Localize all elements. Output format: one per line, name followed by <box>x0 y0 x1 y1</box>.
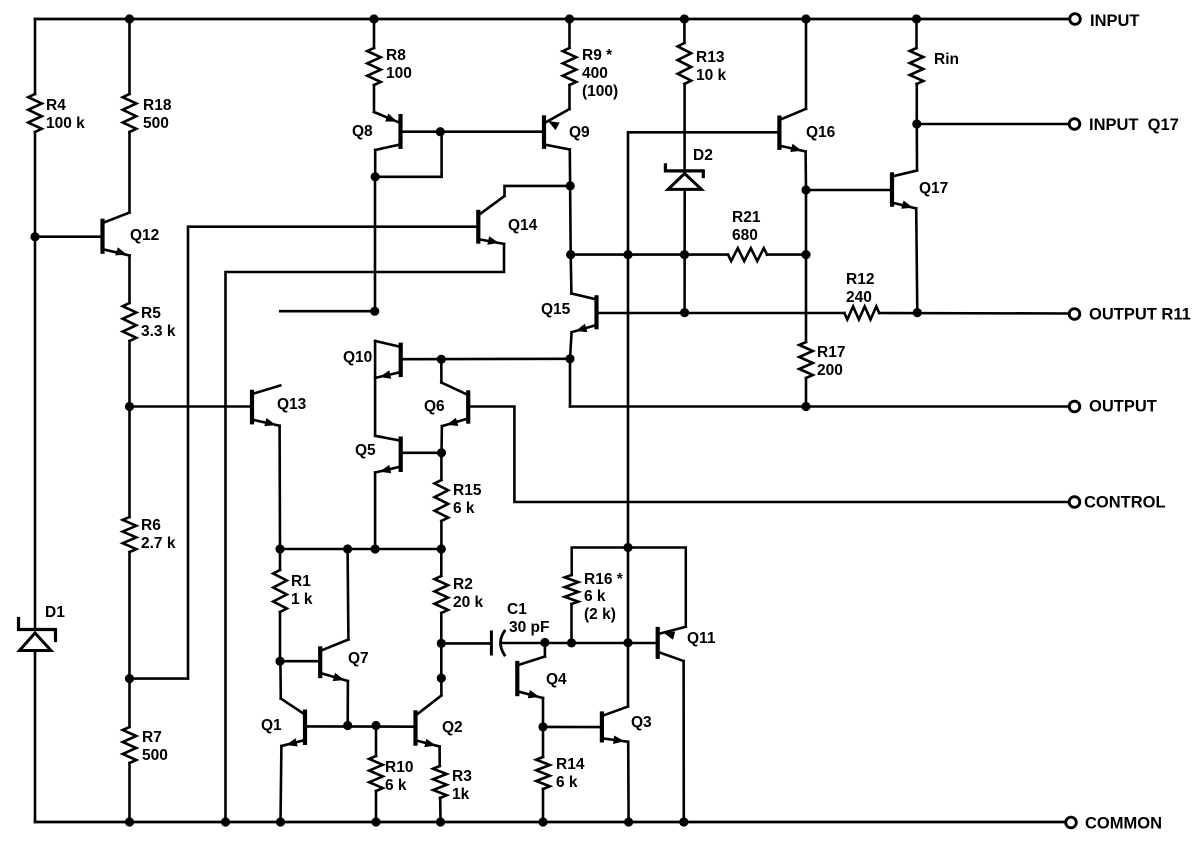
svg-text:100 k: 100 k <box>46 115 85 132</box>
junction: top rail/R8 <box>369 14 378 23</box>
junction: top rail/Q16 collector <box>801 14 810 23</box>
svg-text:240: 240 <box>846 289 872 306</box>
svg-text:400: 400 <box>582 65 608 82</box>
svg-text:6 k: 6 k <box>584 588 606 605</box>
svg-text:R17: R17 <box>817 344 845 361</box>
junction: Q15 emitter node <box>565 354 574 363</box>
resistor R10 value label <box>385 759 413 794</box>
svg-text:Q14: Q14 <box>508 217 538 234</box>
transistor Q1 <box>261 699 305 747</box>
resistor R21 <box>728 248 767 261</box>
junction: Q14/Q9 collector node <box>566 181 575 190</box>
wire: bottom COMMON rail <box>35 821 1065 824</box>
svg-text:R5: R5 <box>141 305 161 322</box>
transistor Q9 <box>544 109 590 150</box>
terminal OUTPUT <box>1069 398 1157 416</box>
resistor R1 value label <box>291 573 313 608</box>
capacitor C1 <box>491 631 504 655</box>
svg-text:Q10: Q10 <box>343 349 372 366</box>
wire: Q16 base column <box>628 132 778 642</box>
wire: Q15 emitter to OUTPUT corner <box>570 332 572 406</box>
svg-text:Q3: Q3 <box>631 714 652 731</box>
svg-text:R3: R3 <box>452 768 472 785</box>
junction: Q17 collector/INPUT Q17 <box>912 119 921 128</box>
resistor R12 value label <box>846 271 874 306</box>
wire: R21 right lead <box>767 253 806 256</box>
resistor R6 value label <box>141 517 176 552</box>
junction: COMMON/Q3 emitter <box>624 817 633 826</box>
resistor R18 <box>123 94 137 132</box>
junction: C1 line/Q4 collector <box>540 638 549 647</box>
junction: Q8 collector node <box>371 172 380 181</box>
wire: Q8 node down to Q13/Q10 node <box>374 177 377 311</box>
resistor R18 value label <box>143 97 172 132</box>
junction: COMMON/R3 <box>436 817 445 826</box>
svg-text:R15: R15 <box>453 482 482 499</box>
wire: Q2 emitter to R3 <box>438 747 441 767</box>
resistor R17 <box>799 342 813 378</box>
junction: Q5 base/Q6 emitter <box>437 448 446 457</box>
svg-text:R10: R10 <box>385 759 413 776</box>
wire: Q15 collector run <box>569 255 572 294</box>
junction: left rail/Q5 emitter <box>371 544 380 553</box>
wire: Q10 emitter to Q5 collector <box>374 341 377 436</box>
wire: Q13 collector link <box>280 310 375 313</box>
svg-text:CONTROL: CONTROL <box>1084 494 1166 512</box>
junction: Q7 base/R1 <box>275 657 284 666</box>
svg-text:6 k: 6 k <box>453 500 475 517</box>
wire: Q5 emitter to lower rail <box>374 473 377 550</box>
wire: R18 top feed <box>128 19 131 94</box>
svg-text:R2: R2 <box>453 576 473 593</box>
junction: Q4 emitter/Q3 base/R14 <box>538 722 547 731</box>
svg-text:Q15: Q15 <box>541 301 571 318</box>
wire: Q9-collector node row <box>571 253 728 256</box>
transistor Q17 <box>892 171 948 209</box>
resistor R16 <box>565 575 579 604</box>
terminal OUTPUT R11 <box>1069 306 1191 324</box>
wire: Q16 emitter node to R21/R17 column <box>805 190 808 342</box>
wire: R5 bottom to Q13-base node <box>128 341 131 407</box>
transistor Q15 <box>541 294 597 333</box>
wire: Q8/Q9 base link <box>402 130 542 133</box>
junction: Q4 base/R2 column <box>437 674 446 683</box>
svg-text:Q13: Q13 <box>277 396 307 413</box>
wire: R8 bottom lead <box>373 85 376 112</box>
svg-text:200: 200 <box>817 362 843 379</box>
wire: OUTPUT R11 line right part <box>879 312 1068 315</box>
wire: Q9 collector run <box>568 150 572 255</box>
svg-text:1k: 1k <box>452 786 470 803</box>
wire: R17 bottom to OUTPUT line <box>805 378 808 407</box>
junction: row254/R21-R17 column <box>801 250 810 259</box>
svg-text:Q2: Q2 <box>442 719 463 736</box>
junction: row254/x628 column <box>623 250 632 259</box>
junction: base line/R10 <box>371 721 380 730</box>
svg-text:R7: R7 <box>142 729 162 746</box>
resistor R3 value label <box>452 768 472 803</box>
wire: Q4 emitter run <box>542 698 545 727</box>
transistor Q2 <box>416 696 463 748</box>
svg-text:(2 k): (2 k) <box>584 606 616 623</box>
resistor Rin value label <box>934 51 959 68</box>
svg-text:Q9: Q9 <box>569 124 590 141</box>
wire: C1 line left lead <box>441 642 491 645</box>
diode D2 label <box>693 147 713 164</box>
wire: Rin top feed <box>915 19 918 48</box>
junction: top rail/R13 <box>680 14 689 23</box>
wire: Q17 collector run <box>915 124 918 171</box>
wire: x628 column to Q3 collector <box>627 643 630 707</box>
transistor Q16 <box>779 109 835 152</box>
terminal CONTROL <box>1069 494 1165 512</box>
wire: R6/R7 node to bias line A <box>130 677 189 680</box>
svg-text:C1: C1 <box>507 601 527 618</box>
junction: OUTPUT R11/D2 anode <box>680 308 689 317</box>
resistor R7 <box>123 727 137 763</box>
junction: OUTPUT R11/Q17 emitter <box>913 308 922 317</box>
svg-text:R16 *: R16 * <box>584 571 624 588</box>
resistor R2 <box>435 576 449 613</box>
wire: R9 bottom lead <box>568 85 571 109</box>
wire: top INPUT rail <box>35 18 1069 21</box>
svg-text:R8: R8 <box>386 47 406 64</box>
resistor R15 value label <box>453 482 482 517</box>
wire: Q14 collector link <box>505 186 571 196</box>
resistor R6 <box>123 517 137 552</box>
wire: Q5 base <box>403 451 442 454</box>
wire: Q14 emitter return line B <box>226 244 505 822</box>
junction: Q16 emitter/Q17 base <box>801 185 810 194</box>
junction: row254/Q9 collector <box>566 250 575 259</box>
wire: Q13 emitter run <box>278 426 281 549</box>
svg-text:R9 *: R9 * <box>582 47 613 64</box>
svg-text:Q12: Q12 <box>130 227 159 244</box>
wire: Q3 base link <box>543 726 600 729</box>
resistor R9 value label <box>582 47 618 100</box>
junction: top rail/R18 <box>125 14 134 23</box>
transistor Q13 <box>252 386 307 427</box>
svg-text:Q17: Q17 <box>919 180 948 197</box>
junction: C1 line/x628-Q3 <box>623 638 632 647</box>
wire: R10 bottom to COMMON <box>375 791 378 822</box>
svg-text:R18: R18 <box>143 97 172 114</box>
resistor R7 value label <box>142 729 168 764</box>
terminal INPUT Q17 <box>1069 116 1179 134</box>
wire: node to R6 top <box>128 407 131 518</box>
svg-text:INPUT: INPUT <box>1090 12 1140 30</box>
svg-text:Q4: Q4 <box>546 671 567 688</box>
wire: lower-right rail <box>572 548 686 627</box>
wire: Q6 base to CONTROL <box>470 407 1069 503</box>
svg-text:OUTPUT: OUTPUT <box>1089 398 1157 416</box>
wire: Q4 collector feed <box>544 643 547 657</box>
junction: top rail/R9 <box>565 14 574 23</box>
junction: Q8/Q9 base node <box>436 127 445 136</box>
resistor R15 <box>435 480 449 521</box>
wire: left branch vertical (R4/D1 column) <box>34 19 37 822</box>
svg-text:Q1: Q1 <box>261 717 282 734</box>
svg-text:INPUT Q17: INPUT Q17 <box>1089 116 1179 134</box>
resistor R5 <box>123 303 137 341</box>
svg-text:500: 500 <box>142 747 168 764</box>
resistor R3 <box>433 766 447 798</box>
resistor R4 value label <box>46 97 85 132</box>
svg-text:1 k: 1 k <box>291 591 313 608</box>
transistor Q5 <box>355 436 401 474</box>
wire: Q11 collector to COMMON <box>682 661 685 822</box>
junction: Q13 base node <box>125 402 134 411</box>
resistor R9 <box>563 48 577 85</box>
junction: COMMON/R14 <box>538 817 547 826</box>
junction: C1 line/R2 column <box>437 639 446 648</box>
junction: right rail/x628 column <box>623 543 632 552</box>
wire: D2 anode down through node <box>683 189 686 312</box>
wire: Q8 collector junction loop <box>375 132 441 177</box>
wire: R18 bottom to Q12 collector <box>128 132 131 213</box>
wire: R13 top feed <box>683 19 686 43</box>
wire: Q16 emitter run <box>804 152 807 191</box>
junction: COMMON/R7 <box>125 817 134 826</box>
svg-text:Q7: Q7 <box>348 650 369 667</box>
resistor R17 value label <box>817 344 845 379</box>
wire: Q6 emitter to Q5 base node <box>440 426 443 453</box>
wire: Q1 emitter to COMMON <box>279 746 282 822</box>
wire: R1 bottom to Q7 base node <box>279 612 282 661</box>
wire: R2 top feed <box>440 549 443 576</box>
transistor Q10 <box>343 341 401 379</box>
svg-text:20 k: 20 k <box>453 594 484 611</box>
svg-text:100: 100 <box>386 65 412 82</box>
junction: left rail/Q7 collector <box>343 544 352 553</box>
resistor R21 value label <box>732 209 761 244</box>
wire: R7 bottom to COMMON <box>128 763 131 822</box>
svg-text:500: 500 <box>143 115 169 132</box>
wire: Q16 collector feed <box>805 19 808 109</box>
resistor R8 <box>367 48 381 85</box>
wire: R3 bottom to COMMON <box>439 798 442 822</box>
svg-text:R12: R12 <box>846 271 874 288</box>
wire: Q7-base node to Q1 collector <box>279 661 282 698</box>
svg-text:680: 680 <box>732 227 758 244</box>
terminal INPUT <box>1070 12 1140 30</box>
svg-text:R14: R14 <box>556 756 585 773</box>
transistor Q4 <box>517 657 567 699</box>
wire: Q3 emitter to COMMON <box>627 742 630 822</box>
svg-text:R21: R21 <box>732 209 761 226</box>
svg-text:R4: R4 <box>46 97 66 114</box>
diode D1 (zener) <box>19 619 56 651</box>
junction: OUTPUT/R17 <box>801 402 810 411</box>
junction: COMMON/R10 <box>371 817 380 826</box>
junction: left rail/Q13 emitter <box>275 544 284 553</box>
svg-text:Q16: Q16 <box>806 124 836 141</box>
wire: Q17 base link <box>806 189 890 192</box>
junction: Q10 base node <box>437 355 446 364</box>
resistor R14 value label <box>556 756 585 791</box>
wire: R9 top feed <box>568 19 571 48</box>
svg-text:COMMON: COMMON <box>1085 815 1162 833</box>
junction: Q13 collector node <box>370 307 379 316</box>
resistor R4 <box>28 94 42 132</box>
wire: Q13 base <box>130 405 251 408</box>
wire: Q4 base node to Q2 collector <box>440 678 443 695</box>
svg-text:30 pF: 30 pF <box>509 619 549 636</box>
transistor Q14 <box>478 196 537 245</box>
wire: R2 bottom to C1 node <box>440 613 443 643</box>
junction: top rail/Rin <box>912 14 921 23</box>
svg-text:R13: R13 <box>696 49 725 66</box>
wire: R6 bottom to R7 node <box>128 552 131 727</box>
junction: Q12 base/left branch <box>30 232 39 241</box>
svg-text:6 k: 6 k <box>556 774 578 791</box>
svg-text:R6: R6 <box>141 517 161 534</box>
wire: INPUT Q17 line <box>917 123 1069 126</box>
diode D1 label <box>45 604 65 621</box>
svg-text:Q11: Q11 <box>687 630 716 647</box>
capacitor C1 value label <box>507 601 549 636</box>
wire: Rin bottom to Q17 collector node <box>915 84 918 124</box>
svg-text:2.7 k: 2.7 k <box>141 535 176 552</box>
svg-text:OUTPUT R11: OUTPUT R11 <box>1089 306 1191 324</box>
wire: bias line A vertical + Q14 base <box>188 227 477 679</box>
resistor R13 <box>678 43 692 84</box>
svg-text:Q6: Q6 <box>424 398 445 415</box>
resistor R16 value label <box>584 571 624 623</box>
wire: R14 bottom to COMMON <box>542 789 545 822</box>
transistor Q11 <box>658 627 716 661</box>
junction: COMMON/Q11 collector <box>679 817 688 826</box>
wire: OUTPUT line <box>570 405 1069 408</box>
resistor R8 value label <box>386 47 412 82</box>
wire: Q7 emitter run <box>346 681 349 726</box>
wire: Q12 emitter to R5 <box>128 256 131 304</box>
svg-text:Q5: Q5 <box>355 442 376 459</box>
junction: COMMON/Q1 emitter <box>276 817 285 826</box>
wire: OUTPUT R11 line left part <box>598 312 844 315</box>
svg-text:D2: D2 <box>693 147 713 164</box>
svg-text:3.3 k: 3.3 k <box>141 323 176 340</box>
wire: R13 bottom to D2 cathode <box>683 84 686 169</box>
junction: row254/D2 <box>680 250 689 259</box>
transistor Q6 <box>424 383 468 427</box>
wire: R15 bottom to lower rail <box>440 521 443 549</box>
wire: lower-left rail <box>280 548 443 551</box>
junction: COMMON/line B <box>221 817 230 826</box>
resistor R12 <box>844 307 879 320</box>
wire: Q12 base <box>35 235 101 238</box>
diode D2 (zener) <box>665 165 703 190</box>
wire: R16 bottom lead <box>570 604 573 643</box>
resistor R1 <box>273 570 287 612</box>
wire: C1 to Q4/R16/Q3 nodes and Q11 base <box>502 642 656 645</box>
transistor Q3 <box>602 707 652 745</box>
junction: base line/Q7 emitter <box>343 721 352 730</box>
transistor Q8 <box>352 112 401 150</box>
wire: Q10 base to Q6 collector <box>440 359 443 382</box>
svg-text:Rin: Rin <box>934 51 959 68</box>
wire: Q10/Q15 base link <box>403 357 571 360</box>
terminal COMMON <box>1066 815 1162 833</box>
resistor R14 <box>536 757 550 789</box>
wire: Q7 base <box>280 660 318 663</box>
wire: R1 top feed <box>279 549 282 570</box>
wire: R10 top feed <box>375 726 378 757</box>
svg-text:6 k: 6 k <box>385 777 407 794</box>
resistor R10 <box>369 756 383 791</box>
transistor Q12 <box>103 213 160 256</box>
wire: R14 top feed <box>542 727 545 757</box>
svg-text:10 k: 10 k <box>696 67 727 84</box>
wire: Q7 collector run <box>346 549 349 640</box>
junction: R6-R7/bias tap <box>125 674 134 683</box>
transistor Q7 <box>320 640 368 682</box>
svg-text:D1: D1 <box>45 604 65 621</box>
svg-text:Q8: Q8 <box>352 123 373 140</box>
wire: C1 node to Q4 base node <box>440 643 443 678</box>
junction: C1 line/R16 <box>567 638 576 647</box>
resistor R2 value label <box>453 576 484 611</box>
junction: left rail/R15-R2 <box>437 544 446 553</box>
resistor Rin <box>910 48 924 84</box>
svg-text:R1: R1 <box>291 573 311 590</box>
svg-text:(100): (100) <box>582 83 618 100</box>
wire: node to R15 top <box>440 453 443 480</box>
resistor R13 value label <box>696 49 727 84</box>
wire: Q1/Q2 base link <box>307 725 414 728</box>
resistor R5 value label <box>141 305 176 340</box>
wire: R8 top feed <box>373 19 376 48</box>
wire: Q17 emitter run <box>916 208 917 312</box>
